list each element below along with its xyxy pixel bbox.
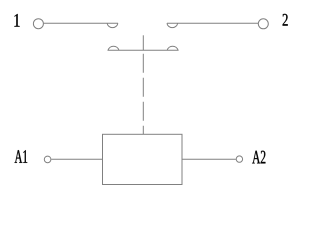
terminal label 2 bbox=[283, 14, 288, 26]
left fixed contact seat bbox=[107, 23, 118, 27]
wire terminal 1 to left fixed contact bbox=[44, 22, 118, 24]
left moving contact bbox=[108, 46, 119, 50]
actuator linkage dashed to coil bbox=[142, 54, 144, 135]
terminal circle 2 bbox=[258, 19, 268, 29]
coil K1 box bbox=[103, 134, 183, 184]
terminal circle A1 bbox=[44, 156, 51, 163]
terminal circle 1 bbox=[33, 19, 43, 29]
terminal label 1 bbox=[14, 14, 19, 27]
terminal label A2 bbox=[252, 151, 265, 164]
terminal label A1 bbox=[15, 150, 28, 163]
wire coil to A2 bbox=[182, 158, 236, 160]
terminal circle A2 bbox=[236, 156, 242, 162]
moving bridge bar bbox=[108, 49, 179, 51]
right moving contact bbox=[167, 46, 178, 50]
wire A1 to coil bbox=[51, 158, 102, 160]
actuator stem above bridge bbox=[142, 35, 144, 50]
wire right fixed contact to terminal 2 bbox=[167, 22, 258, 24]
right fixed contact seat bbox=[167, 23, 178, 27]
